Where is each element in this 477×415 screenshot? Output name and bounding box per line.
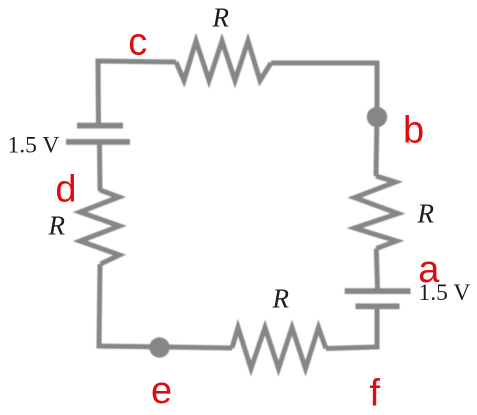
wire below right battery to bottom-right corner and left to bottom resistor bbox=[326, 309, 377, 349]
node e junction dot bbox=[149, 337, 169, 357]
wire right upper: node b down to right resistor bbox=[376, 116, 377, 176]
svg-text:f: f bbox=[370, 373, 381, 415]
battery B2 1.5 V right: short bottom plate bbox=[356, 303, 400, 309]
svg-text:a: a bbox=[418, 249, 440, 291]
node b junction dot bbox=[367, 107, 387, 127]
battery B1 1.5 V left: short top plate bbox=[77, 123, 123, 129]
svg-text:b: b bbox=[403, 110, 424, 152]
resistor R top bbox=[176, 41, 271, 81]
svg-text:R: R bbox=[48, 211, 66, 241]
svg-text:c: c bbox=[128, 22, 147, 64]
battery B1 1.5 V left: long bottom plate bbox=[66, 139, 130, 145]
wire top-right: top resistor to corner, down to node b bbox=[271, 63, 377, 118]
resistor R bottom bbox=[232, 328, 326, 369]
wire top-left: from left battery up and right to top resistor bbox=[98, 61, 176, 125]
battery B2 1.5 V right: long top plate bbox=[345, 288, 411, 294]
wire bottom-left: bottom resistor through node e to corner, up to left resistor bbox=[99, 264, 232, 348]
svg-text:R: R bbox=[272, 283, 290, 313]
resistor R left bbox=[80, 190, 120, 264]
svg-text:e: e bbox=[151, 370, 172, 412]
resistor R right bbox=[355, 176, 398, 249]
wire left: left resistor up to left battery bbox=[97, 144, 103, 191]
svg-text:R: R bbox=[212, 3, 230, 33]
wire right lower: right resistor to right battery bbox=[376, 249, 377, 290]
svg-text:R: R bbox=[417, 198, 435, 228]
svg-text:d: d bbox=[55, 169, 76, 211]
svg-text:1.5 V: 1.5 V bbox=[8, 133, 60, 159]
